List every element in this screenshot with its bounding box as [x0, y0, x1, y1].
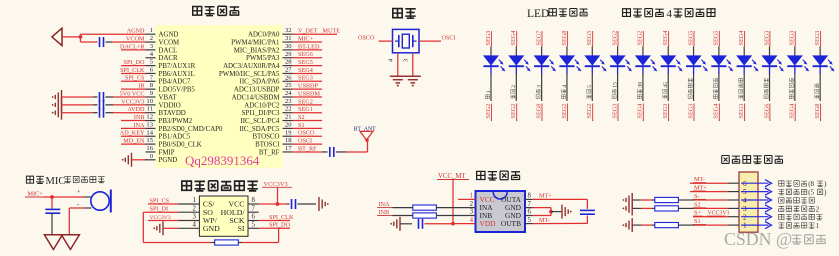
wire cathode LED D10 — [718, 74, 720, 101]
ground C3 — [319, 197, 329, 211]
svg-text:1: 1 — [150, 27, 153, 34]
wire anode LED D2 — [515, 47, 517, 57]
net label MT- (J1) — [693, 176, 706, 183]
svg-text:15: 15 — [612, 82, 618, 88]
wire PGND ground to pin 0 — [132, 159, 148, 161]
wire anode LED D4 — [566, 47, 568, 57]
speaker SPK1 symbol — [52, 28, 62, 45]
svg-text:(5: (5 — [808, 189, 814, 197]
net label MT- (U3 OUTB) — [533, 217, 588, 224]
ground U2 GND pin — [153, 221, 178, 235]
net label SEG4 (LED D11 anode) — [738, 31, 745, 47]
svg-text:VDD: VDD — [480, 219, 497, 228]
svg-text:4: 4 — [470, 217, 474, 224]
svg-text:6: 6 — [252, 214, 256, 221]
U1 pin 8 LDO5V/PB5 — [146, 82, 196, 93]
svg-text:2: 2 — [816, 205, 820, 213]
svg-text:ADC14/USBDM: ADC14/USBDM — [232, 94, 280, 101]
LED D4 function label 档位4 — [562, 85, 568, 99]
svg-text:14: 14 — [146, 129, 153, 136]
svg-text:SEG1: SEG1 — [298, 106, 313, 113]
svg-text:ADC10/PC2: ADC10/PC2 — [244, 102, 280, 109]
LED D1 — [483, 56, 505, 74]
svg-text:45: 45 — [663, 82, 669, 88]
net label SPI_DI (U2) — [143, 206, 178, 213]
svg-text:SEG8: SEG8 — [561, 31, 568, 46]
svg-text:AGND: AGND — [159, 32, 179, 39]
svg-text:SEG2: SEG2 — [637, 31, 644, 46]
svg-text:SEG8: SEG8 — [814, 104, 821, 119]
title text 光栅电路接法 — [722, 155, 783, 163]
svg-text:SEG4: SEG4 — [738, 31, 745, 46]
svg-text:6: 6 — [150, 66, 154, 73]
svg-text:SEG2: SEG2 — [510, 104, 517, 119]
LED D5 — [585, 56, 607, 74]
svg-text:SEG4: SEG4 — [713, 104, 720, 119]
svg-text:SPI_DO: SPI_DO — [269, 222, 291, 229]
svg-text:7: 7 — [528, 201, 532, 208]
U2 pin 6 SCK — [229, 214, 258, 225]
junction U3 GND — [549, 210, 553, 214]
svg-text:VCOM: VCOM — [159, 39, 180, 46]
svg-text:28: 28 — [285, 59, 292, 66]
svg-text:30: 30 — [285, 43, 292, 50]
arrow J1 pin 2 — [741, 213, 772, 220]
wire cathode LED D7 — [642, 74, 644, 101]
svg-text:SEG3: SEG3 — [814, 31, 821, 46]
LED D2 function label 档位2 — [511, 85, 517, 99]
net label SEG4 — [293, 67, 323, 74]
U1 pin 12 PB3/PWM2 — [146, 114, 193, 125]
crystal X1 body — [393, 29, 420, 52]
capacitor C3 (U2 VCC) — [287, 199, 316, 209]
net label SEG8 (LED D4 anode) — [561, 31, 568, 47]
antenna ANT1 — [360, 131, 373, 141]
net label MT+ (J1) — [693, 185, 707, 192]
wire cathode LED D14 — [819, 74, 821, 101]
svg-text:LED: LED — [527, 8, 549, 20]
net label IR — [121, 83, 146, 90]
svg-text:DACL: DACL — [159, 47, 178, 54]
LED D3 — [534, 56, 556, 74]
svg-text:5: 5 — [587, 85, 593, 88]
svg-text:BTAVDD: BTAVDD — [159, 110, 186, 117]
net label BT_RF — [293, 145, 323, 152]
U1 pin 31 PWM4/MIC/PA1 — [231, 35, 292, 46]
net label SEG3 (LED D13 anode) — [789, 31, 796, 47]
U3 pin 4 VDD — [470, 217, 497, 228]
svg-text:SEG3: SEG3 — [738, 104, 745, 119]
U1 pin 23 ADC10/PC2 — [244, 98, 292, 109]
net label SEG4 (LED D10 cathode) — [713, 104, 720, 122]
U1 pin 26 IIC_SDA/PA6 — [240, 74, 293, 85]
wire anode LED D9 — [693, 47, 695, 57]
wire cathode LED D9 — [693, 74, 695, 101]
svg-text:(8: (8 — [808, 180, 814, 188]
J1 pin 2 description — [779, 214, 823, 220]
svg-text:SEG5: SEG5 — [298, 59, 313, 66]
net label SEG4 (LED D13 cathode) — [789, 104, 796, 122]
ground J1 row 3 — [623, 201, 633, 215]
U1 pin 19 BTOSCO — [252, 129, 292, 140]
wire ground to cap C4 — [400, 223, 412, 225]
svg-text:BT_RF: BT_RF — [298, 145, 317, 152]
wire anode LED D3 — [541, 47, 543, 57]
wire anode LED D7 — [642, 47, 644, 57]
U1 pin 2 VCOM — [146, 35, 180, 46]
wire cathode LED D2 — [515, 74, 517, 101]
capacitor bypass row pin 10 — [100, 100, 104, 110]
ground triangle (cap C2) — [44, 235, 62, 250]
wire cathode LED D12 — [769, 74, 771, 101]
svg-text:OSCI: OSCI — [442, 35, 456, 42]
LED D9 function label 电源键灯 — [688, 78, 692, 99]
svg-text:PB4/ADC7: PB4/ADC7 — [159, 79, 191, 86]
title text 晶振 — [393, 9, 416, 19]
svg-text:15: 15 — [146, 137, 153, 144]
svg-text:5V0 VCC: 5V0 VCC — [120, 90, 145, 97]
U2 pin 5 SI — [238, 222, 259, 233]
net label S2 (J1) — [693, 201, 706, 208]
svg-text:AVDD: AVDD — [127, 106, 145, 113]
svg-text:SEG6: SEG6 — [763, 104, 770, 119]
U1 pin 14 PB1/ADC5 — [146, 129, 191, 140]
net label VCC3V3 (U2 WP) — [148, 215, 178, 221]
net label SEG8 (LED D3 cathode) — [535, 104, 542, 122]
net label AVDD — [121, 106, 146, 113]
net label SEG3 (LED D12 anode) — [763, 31, 770, 47]
title text 音乐储存芯片 — [182, 181, 258, 191]
LED D4 — [559, 56, 581, 74]
svg-text:SPI_CS: SPI_CS — [125, 75, 145, 82]
svg-text:2: 2 — [192, 205, 196, 212]
title text 电机输出 — [477, 171, 520, 180]
svg-text:25: 25 — [285, 82, 292, 89]
svg-text:7: 7 — [252, 205, 256, 212]
net label SEG2 (LED D5 cathode) — [586, 104, 593, 122]
svg-text:1: 1 — [470, 193, 473, 200]
svg-text:BTOSCO: BTOSCO — [252, 134, 279, 141]
resistor J1 row 3 — [655, 206, 679, 211]
U3 pin 5 OUTB — [501, 217, 533, 228]
net label SEG2 (LED D1 cathode) — [485, 104, 492, 122]
LED D11 — [737, 56, 759, 74]
wire J1 row 4 — [632, 199, 728, 201]
svg-text:3: 3 — [470, 209, 474, 216]
svg-text:3: 3 — [402, 59, 409, 62]
resistor J1 row 1 — [655, 223, 679, 228]
wire U2 bottom loop — [143, 212, 278, 242]
svg-text:SEG2: SEG2 — [611, 31, 618, 46]
svg-text:INA: INA — [379, 201, 391, 208]
svg-text:SPI_CS: SPI_CS — [150, 197, 170, 204]
svg-text:VBAT: VBAT — [159, 94, 178, 101]
capacitor C4 (VDD) — [419, 219, 423, 229]
net label SEG3 (LED D9 cathode) — [687, 104, 694, 122]
svg-text:5: 5 — [528, 217, 532, 224]
svg-text:7: 7 — [150, 74, 154, 81]
net label SEG6 (LED D12 cathode) — [763, 104, 770, 122]
wire cathode LED D6 — [617, 74, 619, 101]
wire cathode LED D3 — [541, 74, 543, 101]
wire cap C1 to VCOM pin2 — [106, 41, 122, 43]
wire ground to cap row pin 11 — [62, 112, 98, 114]
net label SEG3 (LED D1 anode) — [485, 31, 492, 47]
LED D6 function label 定时15 — [612, 82, 618, 99]
LED D14 function label 摇头灯 — [815, 84, 819, 99]
svg-text:BTOSCI: BTOSCI — [255, 142, 280, 149]
net label VCC3V3 (J1) — [707, 211, 730, 217]
svg-text:2: 2 — [743, 213, 747, 221]
svg-text:SEG3: SEG3 — [485, 31, 492, 46]
svg-text:3: 3 — [150, 43, 154, 50]
svg-text:PWM4/MIC/PA1: PWM4/MIC/PA1 — [231, 39, 280, 46]
LED D1 function label 档位1 — [486, 90, 492, 99]
wire INB to R2 — [393, 215, 413, 217]
wire INA to R1 — [393, 207, 413, 209]
junction U2 VCC — [276, 202, 280, 206]
label mic plus — [77, 189, 81, 196]
net label MD_EN — [121, 138, 146, 145]
wire cathode LED D8 — [667, 74, 669, 101]
crystal pin 4 wire — [387, 53, 398, 77]
LED D8 function label 定时45 — [663, 82, 669, 99]
svg-text:PWM0/IIC_SCL/PA5: PWM0/IIC_SCL/PA5 — [219, 71, 280, 78]
U1 pin 18 BTOSCI — [255, 137, 292, 148]
net label INA — [121, 122, 146, 129]
resistor R2 (INB) — [413, 213, 437, 218]
wire pin8 VCC — [259, 203, 287, 205]
label mic minus — [77, 200, 80, 208]
wire J1 row 5 — [690, 191, 728, 193]
svg-text:S1: S1 — [298, 122, 305, 129]
svg-text:10: 10 — [146, 98, 153, 105]
net label SEG8 (LED D14 cathode) — [814, 104, 821, 122]
LED D11 function label 定时键灯 — [739, 78, 743, 99]
net label S1 — [293, 122, 323, 129]
U3 pin 8 OUTA — [501, 193, 533, 204]
net label BT-LED — [293, 43, 323, 50]
U3 pin 3 INB — [470, 209, 493, 220]
svg-text:AD_KEY: AD_KEY — [120, 130, 145, 137]
net label USBDM — [293, 90, 323, 97]
net label SEG3 — [293, 75, 323, 82]
wire anode LED D13 — [794, 47, 796, 57]
wire anode LED D5 — [591, 47, 593, 57]
net label VCC_MT — [437, 173, 469, 180]
LED D14 — [813, 56, 835, 74]
net label SEG3 (LED D6 cathode) — [611, 104, 618, 122]
svg-text:5: 5 — [252, 222, 256, 229]
svg-text:8: 8 — [252, 197, 256, 204]
U2 pin 4 GND — [178, 222, 220, 233]
wire mic - down to ground — [69, 208, 91, 235]
LED D3 function label 档位3 — [536, 85, 542, 99]
net label SEG7 (LED D3 anode) — [535, 31, 542, 47]
wire anode LED D12 — [769, 47, 771, 57]
ground U3 VDD cap — [390, 217, 400, 231]
LED D10 — [711, 56, 733, 74]
J1 pin 5 description — [778, 189, 827, 197]
svg-text:2: 2 — [511, 85, 517, 88]
wire cathode LED D13 — [794, 74, 796, 101]
svg-text:4: 4 — [387, 58, 394, 62]
svg-text:IR: IR — [138, 83, 145, 90]
wire R1 to U3 pin2 — [436, 207, 475, 209]
U1 pin 0 PGND — [146, 153, 178, 164]
svg-text:CSDN @: CSDN @ — [724, 229, 792, 249]
svg-text:24: 24 — [285, 90, 292, 97]
svg-text:1: 1 — [816, 222, 820, 230]
arrow J1 pin 3 — [741, 205, 772, 212]
svg-text:19: 19 — [285, 129, 292, 136]
svg-text:-: - — [77, 200, 80, 208]
svg-text:OSCI: OSCI — [298, 138, 312, 145]
svg-text:18: 18 — [285, 137, 292, 144]
net label SPI_CS — [121, 75, 146, 82]
J1 pin 6 — [728, 180, 747, 188]
wire S+ row — [693, 216, 728, 218]
U2 pin 1 CS/ — [178, 197, 215, 208]
svg-text:S2: S2 — [298, 114, 305, 121]
net label VCC3V3 (above U2) — [262, 181, 292, 188]
net label OSCI (crystal right) — [419, 35, 456, 42]
wire junction down to cap C2 — [51, 197, 53, 209]
svg-text:8: 8 — [528, 193, 532, 200]
net label SEG3 (LED D14 anode) — [814, 31, 821, 47]
svg-text:SEG5: SEG5 — [713, 31, 720, 46]
J1 pin 4 — [728, 197, 747, 205]
U1 pin 17 BT_RF — [259, 145, 293, 156]
svg-text:BT_RF: BT_RF — [259, 149, 280, 156]
ground crystal pin 3 — [405, 76, 421, 86]
U3 pin 7 GND — [505, 201, 533, 212]
svg-text:SPI_CLK: SPI_CLK — [269, 214, 294, 221]
svg-text:12: 12 — [146, 114, 153, 121]
wire cap to antenna — [346, 140, 368, 152]
U1 pin 25 ADC13/USBDP — [234, 82, 293, 93]
svg-text:IIC_SDA/PA6: IIC_SDA/PA6 — [240, 79, 281, 86]
resistor R4 (U2 loop) — [215, 240, 239, 245]
U1 pin 29 PWM5/PA3 — [246, 51, 292, 62]
svg-text:AGND: AGND — [127, 28, 145, 35]
svg-text:OSCO: OSCO — [298, 130, 315, 137]
U1 pin 27 PWM0/IIC_SCL/PA5 — [219, 66, 293, 77]
svg-text:SPI_DI: SPI_DI — [150, 206, 169, 213]
svg-text:SEG5: SEG5 — [586, 31, 593, 46]
net label SEG2 (LED D7 anode) — [637, 31, 644, 47]
wire cathode LED D5 — [591, 74, 593, 101]
net label AGND — [121, 28, 146, 35]
U3 pin 1 VCC — [470, 193, 495, 204]
svg-text:3: 3 — [192, 214, 196, 221]
svg-text:DACR: DACR — [159, 55, 179, 62]
svg-text:USBDP: USBDP — [298, 83, 319, 90]
svg-text:23: 23 — [285, 98, 292, 105]
net label VCOM — [121, 35, 146, 42]
svg-text:INB: INB — [379, 209, 390, 216]
net label MUTE — [323, 28, 341, 35]
U1 pin 13 PB2/SD0_CMD/CAP0 — [146, 121, 224, 132]
svg-text:PGND: PGND — [159, 157, 178, 164]
svg-text:VCC3V3: VCC3V3 — [121, 98, 144, 105]
svg-text:SEG2: SEG2 — [586, 104, 593, 119]
U1 pin 20 IIC_SDA/PC5 — [239, 121, 292, 132]
wire U3 pin7 to junction — [533, 208, 551, 212]
J1 pin 5 — [728, 188, 747, 196]
wire anode LED D10 — [718, 47, 720, 57]
flash chip U2 body — [199, 196, 248, 236]
wire U3 pin1 stub — [458, 198, 476, 200]
wire U3 pin6 to junction — [533, 212, 551, 216]
net label S+ — [693, 210, 703, 217]
svg-text:SEG4: SEG4 — [789, 104, 796, 119]
wire U3 pin4 stub — [453, 223, 476, 225]
svg-text:SPI_DO: SPI_DO — [124, 59, 146, 66]
svg-text:S+: S+ — [694, 210, 701, 217]
U2 pin 8 VCC — [228, 197, 258, 208]
svg-text:21: 21 — [285, 114, 292, 121]
svg-text:LDO5V/PB5: LDO5V/PB5 — [159, 87, 196, 94]
ground bars row pin 10 — [52, 98, 62, 112]
arrow J1 pin 5 — [741, 188, 772, 195]
net label S2 — [293, 114, 323, 121]
U1 pin 9 VBAT — [146, 90, 178, 101]
wire junction to ground — [551, 211, 562, 213]
LED D5 function label 档位5 — [587, 85, 593, 99]
U1 pin 6 PB6/AUX1L — [146, 66, 195, 77]
svg-text:4: 4 — [667, 8, 673, 20]
wire junction up to AGND pin1 — [80, 34, 121, 37]
net label INA (U3) — [377, 201, 393, 208]
svg-text:): ) — [824, 180, 827, 188]
svg-text:30: 30 — [638, 82, 644, 88]
J1 pin 3 description — [778, 205, 819, 213]
ground bars row pin 9 — [52, 90, 62, 104]
U1 pin 21 IIC_SCL/PC4 — [240, 114, 292, 125]
wire R2 to U3 pin3 — [436, 215, 475, 217]
net label MIC+ — [25, 191, 43, 198]
svg-text:2: 2 — [470, 201, 474, 208]
net label SEG5 (LED D10 anode) — [713, 31, 720, 47]
J1 pin 4 description — [779, 197, 815, 203]
wire anode LED D1 — [490, 47, 492, 57]
J1 pin 3 — [728, 205, 747, 213]
capacitor bypass row pin 11 — [100, 108, 104, 118]
svg-text:DACL+R: DACL+R — [120, 43, 145, 50]
wire cathode LED D1 — [490, 74, 492, 101]
svg-text:MT+: MT+ — [539, 193, 552, 200]
svg-text:SEG3: SEG3 — [763, 31, 770, 46]
svg-text:SEG8: SEG8 — [535, 104, 542, 119]
main MCU QQ value label Qq298391364 — [185, 153, 260, 168]
title text LED驱动电路 — [527, 8, 587, 20]
wire anode LED D6 — [617, 47, 619, 57]
svg-text:16: 16 — [146, 145, 153, 152]
net label SPI_CS (U2) — [148, 197, 178, 204]
J1 pin 2 — [728, 213, 747, 221]
net label V_DET — [293, 28, 338, 35]
svg-text:IIC_SDA/PC5: IIC_SDA/PC5 — [239, 126, 280, 133]
net label SEG5 (LED D9 anode) — [687, 31, 694, 47]
crystal pin 3 wire — [402, 53, 413, 77]
wire cap C2 to ground — [51, 213, 53, 235]
wire speaker to junction — [62, 36, 80, 38]
svg-text:MD_EN: MD_EN — [123, 138, 145, 145]
svg-text:MIC+: MIC+ — [298, 35, 314, 42]
U3 pin 2 INA — [470, 201, 494, 212]
wire VCC_MT down — [452, 180, 454, 224]
